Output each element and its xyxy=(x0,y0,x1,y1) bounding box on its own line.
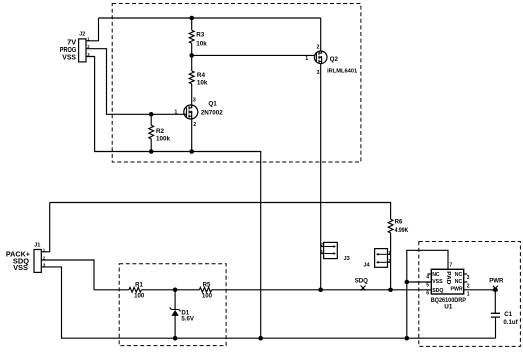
svg-text:1: 1 xyxy=(174,110,177,116)
svg-text:100: 100 xyxy=(134,293,145,300)
svg-text:5: 5 xyxy=(426,282,429,288)
svg-text:C1: C1 xyxy=(504,311,512,318)
svg-text:1: 1 xyxy=(467,292,470,298)
svg-text:2: 2 xyxy=(467,284,470,290)
svg-text:J2: J2 xyxy=(79,31,85,37)
svg-text:R2: R2 xyxy=(156,128,165,135)
svg-text:VSS: VSS xyxy=(432,279,443,285)
svg-text:NC: NC xyxy=(432,272,440,278)
svg-text:7: 7 xyxy=(450,262,453,268)
svg-text:R4: R4 xyxy=(197,72,206,79)
svg-text:PAD: PAD xyxy=(445,271,451,284)
svg-text:R5: R5 xyxy=(203,282,211,289)
svg-text:U1: U1 xyxy=(444,303,453,310)
svg-text:VSS: VSS xyxy=(13,263,28,272)
svg-text:5.6V: 5.6V xyxy=(181,316,194,323)
svg-text:PWR: PWR xyxy=(450,287,462,293)
svg-text:3: 3 xyxy=(467,275,470,281)
svg-text:2N7002: 2N7002 xyxy=(201,109,224,116)
svg-text:NC: NC xyxy=(455,272,463,278)
svg-text:NC: NC xyxy=(455,279,463,285)
svg-text:J3: J3 xyxy=(344,256,350,262)
svg-text:Q2: Q2 xyxy=(330,56,339,63)
svg-text:10k: 10k xyxy=(196,41,207,48)
svg-text:PWR: PWR xyxy=(489,277,504,284)
svg-text:J4: J4 xyxy=(363,263,370,269)
svg-text:SDQ: SDQ xyxy=(355,277,368,284)
svg-text:4: 4 xyxy=(426,274,429,280)
svg-text:100: 100 xyxy=(202,292,213,299)
svg-text:Q1: Q1 xyxy=(208,100,217,107)
svg-text:2: 2 xyxy=(193,122,196,128)
svg-text:IRLML6401: IRLML6401 xyxy=(327,69,357,75)
svg-text:3: 3 xyxy=(193,98,196,104)
svg-text:2: 2 xyxy=(317,44,320,50)
svg-text:100k: 100k xyxy=(156,136,171,143)
svg-text:10k: 10k xyxy=(197,80,208,87)
svg-text:SDQ: SDQ xyxy=(432,288,443,294)
svg-text:R1: R1 xyxy=(135,282,143,289)
svg-text:4.99K: 4.99K xyxy=(395,228,409,234)
svg-text:J1: J1 xyxy=(34,242,40,248)
svg-text:3: 3 xyxy=(317,70,320,76)
svg-text:1: 1 xyxy=(305,56,308,62)
svg-text:0.1uf: 0.1uf xyxy=(503,319,518,326)
svg-text:R3: R3 xyxy=(196,31,205,38)
svg-text:R6: R6 xyxy=(395,219,403,226)
svg-text:VSS: VSS xyxy=(62,52,76,61)
svg-text:6: 6 xyxy=(426,290,429,296)
